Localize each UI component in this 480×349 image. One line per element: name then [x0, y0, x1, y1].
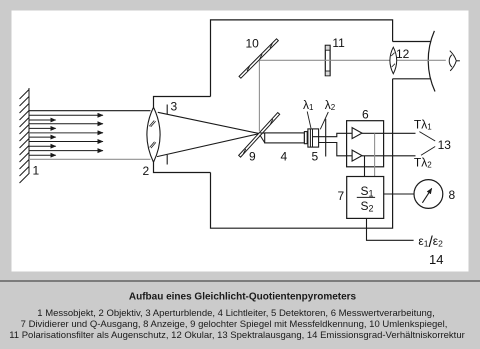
eyepiece tube bottom edge: [393, 78, 431, 80]
svg-text:7: 7: [338, 189, 345, 203]
svg-text:11: 11: [332, 36, 345, 50]
svg-text:2: 2: [143, 164, 150, 178]
wire TL1 output: [362, 132, 416, 134]
meter needle: [422, 188, 431, 202]
filter line: [325, 119, 327, 157]
deflection mirror 10: [239, 39, 278, 78]
meter 8: [414, 180, 443, 209]
wire TL2 output: [362, 155, 416, 157]
svg-text:14: 14: [429, 252, 443, 267]
svg-text:8: 8: [449, 188, 456, 202]
svg-text:1: 1: [33, 164, 40, 178]
box 6 (signal processing): [347, 121, 384, 167]
svg-text:Aufbau eines Gleichlicht-Quoti: Aufbau eines Gleichlicht-Quotientenpyrom…: [129, 292, 357, 303]
lambda pointer lines: [307, 112, 328, 130]
wire axis through filter 11: [325, 59, 331, 61]
svg-text:11 Polarisationsfilter als Aug: 11 Polarisationsfilter als Augenschutz, …: [9, 330, 465, 341]
lens 2 shading ticks: [149, 121, 156, 149]
svg-text:1 Messobjekt, 2 Objektiv, 3 Ap: 1 Messobjekt, 2 Objektiv, 3 Aperturblend…: [37, 308, 434, 319]
svg-text:10: 10: [246, 37, 260, 51]
fraction line S1/S2: [357, 196, 375, 198]
eyepiece tube top edge: [393, 41, 431, 43]
wires detector to box 6: [313, 133, 347, 156]
enclosure housing outline: [211, 20, 393, 228]
svg-text:5: 5: [312, 150, 319, 164]
eyecup arc: [428, 31, 435, 92]
ocular lens 12: [390, 47, 397, 74]
grey optical axis vertical (mirror 9 to mirror 10): [258, 60, 260, 131]
light guide taper: [260, 133, 265, 143]
svg-text:6: 6: [362, 108, 369, 122]
aperture 3 ticks: [166, 105, 168, 165]
grey drop wire to divider: [374, 133, 376, 176]
svg-text:9: 9: [249, 150, 256, 164]
beam boundary bottom line (grey): [29, 158, 151, 160]
wire box7 to meter: [384, 193, 414, 195]
detector inner elements: [310, 129, 312, 147]
beam boundary top line: [29, 110, 151, 112]
svg-text:3: 3: [171, 100, 178, 114]
amplifier triangle bottom: [352, 150, 362, 161]
svg-text:12: 12: [396, 47, 410, 61]
perforated mirror 9: [239, 113, 280, 158]
dark drop wire to divider: [364, 156, 366, 177]
detector block 5: [308, 129, 319, 147]
radiation arrows: [29, 115, 103, 155]
caption: [9, 292, 465, 341]
grey optical axis horizontal (mirror 10 to eye): [259, 59, 445, 61]
measured object hatched wall: [20, 88, 30, 183]
svg-text:13: 13: [438, 138, 452, 152]
wire epsilon output: [367, 218, 414, 240]
svg-text:4: 4: [281, 150, 288, 164]
box 7 divider: [347, 177, 384, 219]
svg-text:7 Dividierer und Q-Ausgang, 8: 7 Dividierer und Q-Ausgang, 8 Anzeige, 9…: [21, 319, 448, 330]
white panel: [12, 11, 469, 272]
separator line: [0, 280, 480, 282]
eye symbol: [449, 51, 460, 71]
polarisation filter 11: [325, 45, 330, 75]
detector end cap: [304, 132, 307, 144]
amplifier triangle top: [352, 128, 362, 139]
objective lens 2: [147, 107, 160, 162]
input stubs inside box6: [347, 133, 353, 156]
enclosure notch around objective lens: [154, 97, 211, 173]
bracket 13 lines: [419, 132, 435, 156]
converging rays lens to mirror: [157, 112, 259, 156]
light guide 4 bar: [265, 133, 305, 143]
